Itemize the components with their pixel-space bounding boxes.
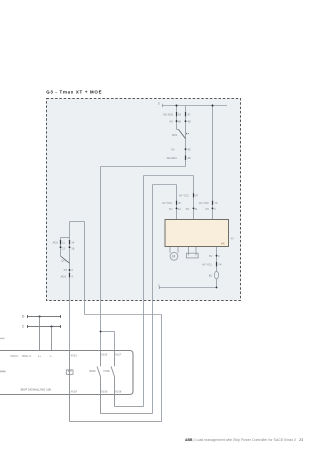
svg-text:EKIP SIGNALLING 10K: EKIP SIGNALLING 10K	[21, 387, 52, 391]
svg-text:D: D	[158, 101, 160, 105]
svg-text:YF: YF	[178, 201, 182, 205]
svg-text:XV: XV	[64, 268, 68, 272]
svg-text:97: 97	[188, 113, 192, 117]
svg-text:M: M	[172, 254, 175, 258]
svg-text:A4: A4	[221, 242, 225, 246]
svg-text:Q/1: Q/1	[61, 258, 66, 262]
svg-text:AD1: AD1	[61, 275, 67, 279]
svg-text:07/08: 07/08	[103, 370, 110, 373]
svg-text:C: C	[22, 325, 25, 329]
svg-text:14: 14	[71, 240, 75, 244]
svg-text:VDC-U: VDC-U	[10, 355, 18, 358]
svg-text:XV: XV	[186, 207, 190, 211]
svg-text:XV: XV	[169, 120, 173, 124]
svg-text:ABB | Load management with Eki: ABB | Load management with Ekip Power Co…	[185, 438, 303, 442]
svg-text:D: D	[22, 314, 25, 318]
svg-text:K105: K105	[101, 354, 107, 357]
svg-text:XV: XV	[231, 236, 235, 240]
svg-text:AY-YO2: AY-YO2	[199, 201, 209, 205]
svg-text:XV: XV	[171, 147, 175, 151]
svg-text:11: 11	[62, 240, 65, 244]
svg-text:AD-AD1: AD-AD1	[167, 156, 178, 160]
svg-text:98: 98	[188, 120, 192, 124]
svg-text:K106: K106	[101, 391, 107, 394]
svg-text:XV2A: XV2A	[71, 391, 78, 394]
svg-text:YF: YF	[214, 201, 218, 205]
svg-text:21: 21	[195, 207, 199, 211]
svg-text:96: 96	[178, 120, 182, 124]
svg-text:41: 41	[178, 207, 182, 211]
svg-text:95: 95	[188, 147, 192, 151]
svg-text:18: 18	[71, 247, 75, 251]
svg-text:AD-AD2: AD-AD2	[163, 113, 174, 117]
svg-text:AY-YO2: AY-YO2	[162, 201, 172, 205]
svg-text:95: 95	[178, 113, 182, 117]
svg-text:K107: K107	[115, 354, 121, 357]
svg-text:XV: XV	[209, 254, 213, 258]
svg-text:XV: XV	[205, 207, 209, 211]
svg-text:05/06: 05/06	[89, 370, 96, 373]
svg-text:C: C	[158, 283, 160, 287]
svg-text:L+: L+	[38, 355, 41, 358]
svg-text:XV: XV	[169, 207, 173, 211]
svg-text:-1: -1	[185, 131, 188, 135]
svg-text:12: 12	[62, 247, 66, 251]
svg-text:K108: K108	[115, 391, 121, 394]
svg-text:96: 96	[188, 156, 192, 160]
svg-text:VDO+-V: VDO+-V	[22, 355, 32, 358]
svg-text:B1: B1	[209, 274, 213, 278]
svg-text:AY-YO1: AY-YO1	[202, 263, 212, 267]
svg-text:SD1: SD1	[172, 133, 178, 137]
svg-text:AY-YC2: AY-YC2	[179, 194, 189, 198]
svg-text:G3 - Tmax XT + MOE: G3 - Tmax XT + MOE	[46, 90, 102, 95]
svg-text:AD1: AD1	[53, 240, 59, 244]
svg-text:Y4: Y4	[218, 263, 222, 267]
svg-text:XV23: XV23	[71, 354, 78, 357]
svg-text:L-: L-	[50, 355, 52, 358]
svg-text:YF: YF	[195, 194, 199, 198]
